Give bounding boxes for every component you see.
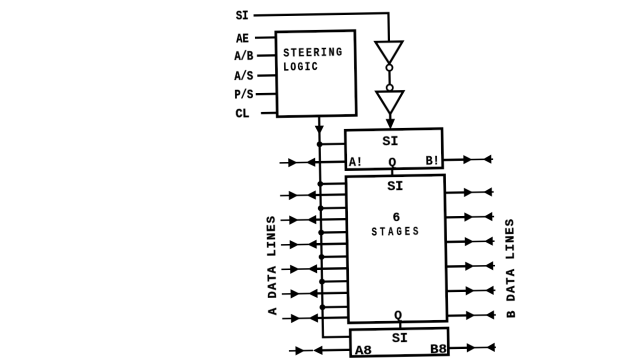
wire B1 data line [442,155,493,165]
junction dot stage4 control tap [318,230,324,236]
svg-text:A8: A8 [355,343,372,358]
wire SI to inverter input [254,13,389,44]
wire A7 data line [282,313,348,323]
wire stage5 control stub [322,255,348,258]
junction dot stage3 control tap [318,205,324,211]
wire stage1 Q to 6-stages SI [391,169,393,176]
wire B7 data line [447,310,496,320]
wire B5 data line [446,261,495,271]
svg-text:STAGES: STAGES [371,225,421,240]
svg-text:CL: CL [235,106,249,121]
6 stages register block [346,175,447,324]
wire AE stub [255,36,277,39]
inverter U2 [375,41,403,70]
wire B8 data line [448,343,496,353]
svg-text:A!: A! [349,155,363,170]
junction dot stage5 control tap [319,254,325,260]
wire steering logic output bus [319,115,350,337]
svg-text:Q: Q [388,155,396,170]
svg-text:SI: SI [387,180,403,195]
svg-text:SI: SI [382,135,398,150]
arrowhead on steering bus [315,126,324,135]
svg-text:A DATA LINES: A DATA LINES [265,216,281,315]
wire stage7 control stub [322,306,348,309]
svg-text:STEERING: STEERING [283,45,344,60]
wire B4 data line [446,237,495,247]
pin label A/S [234,69,253,84]
net label A DATA LINES [265,216,281,315]
junction dot stage6 control tap [319,279,325,285]
svg-text:AE: AE [236,31,249,46]
wire B6 data line [446,286,495,296]
wire stage3 control stub [321,207,347,210]
pin label CL [235,106,249,121]
wire A3 data line [280,214,346,224]
junction dot stage1 control tap [317,141,323,147]
wire A/B stub [257,54,277,57]
wire A4 data line [281,239,347,249]
stage 1 register block [345,129,442,171]
wire stage2 control stub [320,182,346,185]
svg-text:P/S: P/S [234,87,253,102]
junction dot stage2 control tap [317,181,323,187]
wire A/S stub [257,74,277,77]
wire A6 data line [282,288,348,298]
wire stage1 control stub [320,143,346,146]
svg-text:SI: SI [236,8,249,23]
net label B DATA LINES [503,219,519,318]
wire A8 data line [289,345,351,355]
wire A2 data line [280,190,346,200]
wire A1 data line [279,157,345,167]
stage 8 register block [350,328,448,359]
wire inverter output arrow into stage 1 SI [386,114,396,130]
svg-text:B8: B8 [430,342,447,357]
svg-text:6: 6 [393,211,401,225]
pin label A/B [234,49,253,64]
svg-text:SI: SI [392,332,408,347]
svg-text:A/B: A/B [234,49,253,64]
net SI serial input label [236,8,249,23]
wire 6-stages Q to stage 8 SI [399,322,401,329]
inverter U3 [376,84,404,114]
svg-text:A/S: A/S [234,69,253,84]
wire inverter chain link [388,71,390,85]
junction dot stage7 control tap [320,304,326,310]
wire P/S stub [256,93,278,96]
wire B3 data line [445,212,494,222]
svg-text:LOGIC: LOGIC [283,60,319,75]
pin label AE [236,31,249,46]
svg-text:B DATA LINES: B DATA LINES [503,219,519,318]
pin label P/S [234,87,253,102]
wire B2 data line [445,187,494,197]
wire stage4 control stub [321,231,347,234]
wire CL stub [261,112,278,115]
wire stage6 control stub [322,280,348,283]
svg-text:Q: Q [394,308,402,323]
steering logic block U1 [276,31,356,117]
svg-text:B!: B! [425,153,439,168]
wire A5 data line [281,264,347,274]
